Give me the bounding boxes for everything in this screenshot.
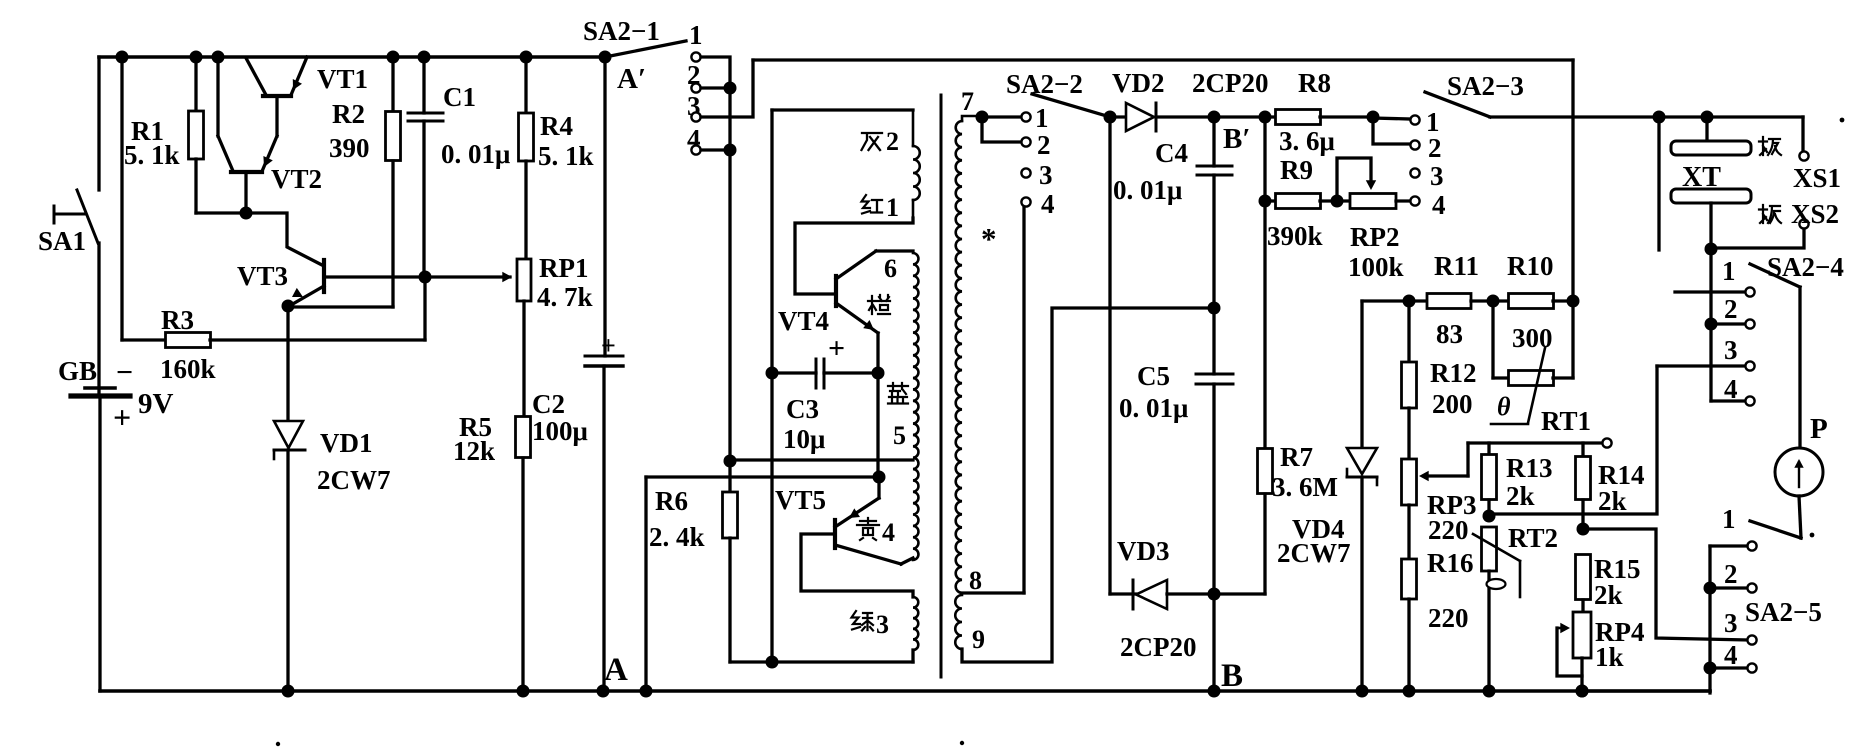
svg-text:R7: R7 bbox=[1280, 442, 1313, 472]
RP4 label bbox=[1595, 617, 1645, 647]
star mark bbox=[981, 221, 997, 256]
SA2-3 pin 2 label bbox=[1428, 133, 1442, 163]
transistor VT5 bbox=[835, 477, 913, 564]
node R10 left bbox=[1487, 295, 1500, 308]
RP3 label bbox=[1427, 490, 1477, 520]
resistor R8 bbox=[1265, 110, 1373, 125]
XS2 label bbox=[1791, 199, 1839, 229]
R15 label bbox=[1594, 554, 1641, 584]
svg-text:C4: C4 bbox=[1155, 138, 1188, 168]
R3 value 160k bbox=[160, 354, 216, 384]
svg-text:C3: C3 bbox=[786, 394, 819, 424]
wire SA2-1 contact1 to common bbox=[701, 57, 730, 88]
R16 value 220 bbox=[1428, 603, 1469, 633]
switch SA2-3 contact 3 bbox=[1410, 168, 1419, 177]
label tap 8 bbox=[969, 566, 982, 595]
RP2 value 100k bbox=[1348, 252, 1404, 282]
svg-text:4: 4 bbox=[1724, 640, 1738, 670]
node B-prime bbox=[1208, 111, 1221, 124]
svg-text:VD2: VD2 bbox=[1112, 68, 1165, 98]
wire SA2-2 contact4 to tap8 bbox=[962, 207, 1024, 593]
wire top rail bbox=[99, 55, 605, 59]
svg-text:200: 200 bbox=[1432, 389, 1473, 419]
wire R2 bottom to VT3 emitter bbox=[288, 305, 393, 308]
svg-text:2: 2 bbox=[886, 127, 899, 156]
C4 value 0.01u bbox=[1113, 175, 1182, 205]
SA2-2 pin 2 label bbox=[1037, 130, 1051, 160]
VD3 type 2CP20 bbox=[1120, 632, 1197, 662]
SA2-1 pin 1 label bbox=[689, 20, 703, 50]
SA2-4 pin 2 label bbox=[1724, 294, 1738, 324]
thermistor RT2 bbox=[1473, 527, 1520, 691]
wire RT1 test row bbox=[1468, 441, 1602, 444]
label cheng orange bbox=[868, 295, 890, 314]
resistor R11 bbox=[1427, 294, 1509, 309]
resistor R12 bbox=[1402, 301, 1417, 459]
R3 label bbox=[161, 305, 194, 335]
node SA2-5 row2 bbox=[1704, 582, 1717, 595]
svg-text:1: 1 bbox=[1035, 103, 1049, 133]
svg-text:7: 7 bbox=[961, 87, 974, 116]
node SA2-1 common to tap5 bbox=[724, 455, 914, 468]
RP1 label bbox=[539, 253, 589, 283]
P label bbox=[1810, 413, 1828, 445]
svg-text:+: + bbox=[601, 331, 616, 360]
svg-text:−: − bbox=[116, 356, 133, 389]
wire B-plus top line bbox=[753, 58, 1573, 61]
svg-text:3: 3 bbox=[1039, 160, 1053, 190]
VD3 label bbox=[1117, 536, 1170, 566]
switch SA2-3 contact 2 bbox=[1410, 140, 1419, 149]
scan speck 2 bbox=[960, 741, 964, 745]
B-prime label bbox=[1223, 123, 1251, 155]
R14 value 2k bbox=[1598, 486, 1627, 516]
C2 value 100u bbox=[532, 416, 588, 446]
svg-text:3: 3 bbox=[876, 610, 889, 639]
transformer primary winding green section bbox=[913, 597, 918, 650]
SA2-2 label bbox=[1006, 69, 1083, 99]
node R14 bottom bbox=[1577, 523, 1590, 536]
wire R8 to SA2-3 contact1 bbox=[1373, 118, 1410, 119]
svg-text:1: 1 bbox=[886, 193, 899, 222]
SA2-3 pin 4 label bbox=[1432, 190, 1446, 220]
VD2 type 2CP20 bbox=[1192, 68, 1269, 98]
node XT top junction bbox=[1701, 111, 1714, 124]
label tap 9 bbox=[972, 625, 985, 654]
switch SA2-5 blade bbox=[1750, 521, 1801, 538]
SA2-5 pin 2 label bbox=[1724, 559, 1738, 589]
wire SA2-5 contact1 bbox=[1710, 544, 1747, 547]
svg-text:R3: R3 bbox=[161, 305, 194, 335]
svg-text:1: 1 bbox=[1722, 256, 1736, 286]
VT5 label bbox=[775, 485, 826, 515]
VT1 label bbox=[317, 64, 368, 94]
svg-text:5. 1k: 5. 1k bbox=[124, 140, 180, 170]
switch SA2-5 contact 3 bbox=[1747, 635, 1756, 644]
svg-text:R9: R9 bbox=[1280, 155, 1313, 185]
node XT bottom junction bbox=[1705, 243, 1718, 256]
wire SA2-2 common vertical bbox=[1108, 117, 1111, 594]
switch SA2-1 blade bbox=[599, 41, 687, 64]
wire left vertical to R3 bbox=[120, 57, 123, 340]
SA2-1 contact 2 bbox=[691, 83, 700, 92]
RT1 label bbox=[1541, 406, 1591, 436]
node R8 left bbox=[1259, 111, 1272, 124]
svg-text:1: 1 bbox=[689, 20, 703, 50]
wire secondary to SA2-2 contact2 bbox=[982, 117, 1021, 142]
VD1 label bbox=[320, 428, 373, 458]
node R13 bottom bbox=[1483, 510, 1496, 523]
resistor R13 bbox=[1482, 443, 1497, 516]
svg-text:B′: B′ bbox=[1223, 123, 1251, 155]
svg-text:R13: R13 bbox=[1506, 453, 1553, 483]
svg-text:3: 3 bbox=[1724, 335, 1738, 365]
R10 label bbox=[1507, 251, 1554, 281]
svg-text:2: 2 bbox=[1037, 130, 1051, 160]
svg-text:XS1: XS1 bbox=[1793, 163, 1841, 193]
R5 value 12k bbox=[453, 436, 495, 466]
wire SA2-4 contact4 bbox=[1711, 399, 1744, 402]
transistor VT3 bbox=[248, 213, 324, 305]
switch SA2-5 contact 2 bbox=[1747, 583, 1756, 592]
node R9 left bbox=[1259, 195, 1272, 208]
svg-text:100k: 100k bbox=[1348, 252, 1404, 282]
R6 label bbox=[655, 486, 688, 516]
node B label bbox=[1221, 658, 1243, 694]
node nine-wire junction bbox=[1208, 302, 1221, 315]
svg-text:300: 300 bbox=[1512, 323, 1553, 353]
wire meter to SA2-5 blade bbox=[1799, 496, 1801, 538]
switch SA2-4 contact 2 bbox=[1745, 319, 1754, 328]
R8 label bbox=[1298, 68, 1331, 98]
RT1 terminal circle bbox=[1602, 438, 1611, 447]
SA2-1 label bbox=[583, 16, 660, 46]
R1 value 5.1k bbox=[124, 140, 180, 170]
svg-text:C5: C5 bbox=[1137, 361, 1170, 391]
switch SA2-2 blade bbox=[1032, 94, 1117, 124]
VT2 label bbox=[271, 164, 322, 194]
zener diode VD1 bbox=[274, 306, 305, 691]
wire SA2-5 contact2 bbox=[1710, 586, 1747, 589]
VD4 type 2CW7 bbox=[1277, 538, 1351, 568]
svg-text:0. 01μ: 0. 01μ bbox=[1119, 393, 1188, 423]
transistor VT4 bbox=[836, 251, 878, 333]
R13 label bbox=[1506, 453, 1553, 483]
svg-text:A′: A′ bbox=[617, 63, 646, 95]
R7 value 3.6M bbox=[1272, 472, 1338, 502]
RP1 value 4.7k bbox=[537, 282, 593, 312]
svg-text:220: 220 bbox=[1428, 603, 1469, 633]
wire B-prime to R8 node bbox=[1214, 115, 1265, 118]
resistor R10 bbox=[1509, 294, 1574, 309]
SA2-1 contact 4 bbox=[691, 145, 700, 154]
svg-text:1k: 1k bbox=[1595, 642, 1624, 672]
svg-text:R4: R4 bbox=[540, 111, 573, 141]
wire A-prime vertical upper bbox=[603, 57, 606, 356]
svg-text:160k: 160k bbox=[160, 354, 216, 384]
svg-text:390: 390 bbox=[329, 133, 370, 163]
SA2-1 contact 1 bbox=[691, 52, 700, 61]
resistor R6 bbox=[723, 461, 738, 662]
svg-text:3. 6M: 3. 6M bbox=[1272, 472, 1338, 502]
svg-text:2CW7: 2CW7 bbox=[317, 465, 391, 495]
RP2 label bbox=[1350, 222, 1400, 252]
wire collector row drop to rail bbox=[644, 477, 647, 691]
svg-text:2: 2 bbox=[1724, 559, 1738, 589]
transformer secondary winding upper bbox=[956, 116, 982, 593]
SA2-5 pin 4 label bbox=[1724, 640, 1738, 670]
svg-text:C2: C2 bbox=[532, 389, 565, 419]
svg-text:θ: θ bbox=[1497, 392, 1511, 421]
svg-text:4: 4 bbox=[882, 518, 895, 547]
SA2-2 pin 3 label bbox=[1039, 160, 1053, 190]
capacitor C3 electrolytic bbox=[766, 359, 885, 388]
potentiometer RP3 bbox=[1402, 459, 1417, 559]
svg-text:4. 7k: 4. 7k bbox=[537, 282, 593, 312]
SA2-5 pin 3 label bbox=[1724, 608, 1738, 638]
node R10 right bbox=[1567, 295, 1580, 308]
wire SA2-4 common vertical bbox=[1709, 249, 1712, 401]
svg-text:3: 3 bbox=[1430, 161, 1444, 191]
GB plus label bbox=[113, 399, 131, 435]
scan speck 3 bbox=[1840, 118, 1845, 123]
resistor R14 bbox=[1576, 443, 1591, 529]
node C1 column on collector line bbox=[419, 271, 432, 284]
svg-text:2k: 2k bbox=[1594, 580, 1623, 610]
svg-text:VT4: VT4 bbox=[778, 306, 829, 336]
SA2-5 label bbox=[1745, 597, 1822, 627]
R12 label bbox=[1430, 358, 1477, 388]
svg-text:+: + bbox=[828, 332, 845, 365]
potentiometer RP4 bbox=[1557, 612, 1591, 691]
switch SA2-2 contact 2 bbox=[1021, 137, 1030, 146]
socket XS1 bbox=[1799, 117, 1808, 161]
svg-text:*: * bbox=[981, 221, 997, 256]
wire SA2-3 common line bbox=[1490, 115, 1803, 118]
wire R3 row right bbox=[210, 338, 425, 341]
wire R8 to SA2-3 contact2 bbox=[1373, 117, 1410, 144]
wire oscillator bottom bbox=[730, 656, 913, 669]
wire primary bottom lead bbox=[911, 650, 914, 662]
switch SA2-3 contact 4 bbox=[1410, 196, 1419, 205]
SA2-3 pin 3 label bbox=[1430, 161, 1444, 191]
R15 value 2k bbox=[1594, 580, 1623, 610]
switch SA1 bbox=[54, 57, 99, 392]
svg-text:SA2−3: SA2−3 bbox=[1447, 71, 1524, 101]
svg-text:12k: 12k bbox=[453, 436, 495, 466]
resistor R1 bbox=[189, 57, 204, 213]
switch SA2-4 contact 1 bbox=[1745, 287, 1754, 296]
wire C3 node down to VT5 collector bbox=[876, 373, 879, 477]
RP3 wiper bbox=[1419, 443, 1468, 481]
label lv3 green3 bbox=[852, 610, 890, 639]
R9 label bbox=[1280, 155, 1313, 185]
meter P bbox=[1775, 448, 1823, 496]
battery GB bbox=[71, 388, 130, 691]
diode VD2 bbox=[1110, 103, 1214, 131]
scan speck 1 bbox=[276, 742, 280, 746]
svg-text:1: 1 bbox=[1722, 504, 1736, 534]
wire SA2-4 blade to meter bbox=[1798, 287, 1801, 448]
node R12 top bbox=[1403, 295, 1416, 308]
svg-text:VT1: VT1 bbox=[317, 64, 368, 94]
resistor R2 bbox=[386, 57, 401, 307]
R4 value 5.1k bbox=[538, 141, 594, 171]
wire bottom rail bbox=[100, 689, 1710, 693]
svg-text:2k: 2k bbox=[1506, 481, 1535, 511]
svg-text:4: 4 bbox=[1041, 189, 1055, 219]
switch SA2-4 blade bbox=[1750, 264, 1800, 287]
XT label bbox=[1682, 162, 1721, 193]
wire R13 junction to SA2-4 contact3 bbox=[1489, 366, 1657, 514]
R11 value 83 bbox=[1436, 319, 1463, 349]
transformer primary winding gray section bbox=[913, 110, 920, 220]
svg-text:5. 1k: 5. 1k bbox=[538, 141, 594, 171]
label tap 5 bbox=[893, 421, 906, 450]
wire box left vertical bbox=[770, 110, 773, 662]
wire top line drop bbox=[1571, 60, 1574, 301]
svg-text:XS2: XS2 bbox=[1791, 199, 1839, 229]
R4 label bbox=[540, 111, 573, 141]
svg-text:GB: GB bbox=[58, 356, 97, 386]
electrode plate XT bottom bbox=[1671, 189, 1751, 249]
wire R11 row from VD4 riser bbox=[1362, 299, 1427, 302]
svg-text:6: 6 bbox=[884, 254, 897, 283]
wire SA2-1 contact2 bbox=[701, 82, 737, 95]
wire VT5 collector row bbox=[646, 471, 886, 484]
RT1 value 300 bbox=[1512, 323, 1553, 353]
svg-text:R16: R16 bbox=[1427, 548, 1474, 578]
RP3 value 220 bbox=[1428, 515, 1469, 545]
wire box top to primary bbox=[772, 108, 913, 111]
electrode plate XT top bbox=[1671, 117, 1751, 155]
svg-text:0. 01μ: 0. 01μ bbox=[1113, 175, 1182, 205]
svg-text:3. 6μ: 3. 6μ bbox=[1279, 126, 1335, 156]
svg-text:83: 83 bbox=[1436, 319, 1463, 349]
socket XS2 bbox=[1711, 219, 1809, 248]
R5 label bbox=[459, 412, 492, 442]
C5 value 0.01u bbox=[1119, 393, 1188, 423]
C2 label bbox=[532, 389, 565, 419]
svg-text:R6: R6 bbox=[655, 486, 688, 516]
wire R14 junction to SA2-5 contact3 bbox=[1583, 529, 1747, 640]
SA2-4 label bbox=[1767, 252, 1844, 282]
svg-text:RT2: RT2 bbox=[1508, 523, 1558, 553]
GB value 9V bbox=[138, 388, 174, 420]
transistor VT1 bbox=[246, 57, 307, 169]
svg-text:2: 2 bbox=[1724, 294, 1738, 324]
C3 label bbox=[786, 394, 819, 424]
scan speck 4 bbox=[1810, 533, 1815, 538]
SA2-4 pin 4 label bbox=[1724, 374, 1738, 404]
diode VD3 bbox=[1110, 580, 1265, 609]
wire SA2-4 contact1 stub bbox=[1675, 290, 1744, 293]
svg-text:R2: R2 bbox=[332, 99, 365, 129]
svg-text:4: 4 bbox=[1432, 190, 1446, 220]
label ban plate bbox=[1759, 205, 1781, 223]
svg-text:RP1: RP1 bbox=[539, 253, 589, 283]
R2 value 390 bbox=[329, 133, 370, 163]
svg-text:9V: 9V bbox=[138, 388, 174, 420]
resistor R4 bbox=[519, 57, 534, 260]
wire VT5 base loop bbox=[801, 534, 913, 597]
C3 plus label bbox=[828, 332, 845, 365]
svg-text:VT2: VT2 bbox=[271, 164, 322, 194]
node VT3 emitter bbox=[282, 300, 295, 313]
R12 value 200 bbox=[1432, 389, 1473, 419]
resistor R7 bbox=[1258, 449, 1273, 595]
C5 label bbox=[1137, 361, 1170, 391]
capacitor C5 bbox=[1196, 308, 1233, 594]
svg-text:2CP20: 2CP20 bbox=[1120, 632, 1197, 662]
svg-text:R11: R11 bbox=[1434, 251, 1479, 281]
label lan blue bbox=[888, 383, 908, 404]
bottom rail junction dots bbox=[282, 685, 1589, 698]
SA2-4 pin 3 label bbox=[1724, 335, 1738, 365]
wire VT4 emitter vertical bbox=[876, 333, 879, 373]
svg-text:C1: C1 bbox=[443, 82, 476, 112]
zener diode VD4 bbox=[1347, 301, 1377, 691]
svg-text:+: + bbox=[113, 399, 131, 435]
wire SA2-1 common vertical bbox=[728, 88, 731, 461]
wire SA2-5 contact4 bbox=[1710, 666, 1747, 669]
wire secondary to SA2-2 contact1 bbox=[982, 115, 1021, 118]
svg-text:10μ: 10μ bbox=[783, 424, 825, 454]
RT2 label bbox=[1508, 523, 1558, 553]
node below VT2 bbox=[240, 207, 253, 220]
wire red1 tap bbox=[795, 218, 913, 294]
svg-text:VT5: VT5 bbox=[775, 485, 826, 515]
resistor R5 bbox=[516, 417, 531, 692]
wire VT4 collector to tap6 bbox=[876, 249, 913, 252]
capacitor C1 bbox=[408, 57, 443, 277]
svg-text:5: 5 bbox=[893, 421, 906, 450]
resistor R3 bbox=[166, 333, 211, 348]
wire stub down bbox=[1657, 117, 1660, 250]
svg-text:390k: 390k bbox=[1267, 221, 1323, 251]
switch SA2-4 contact 3 bbox=[1745, 361, 1754, 370]
R9 value 390k bbox=[1267, 221, 1323, 251]
svg-text:VD1: VD1 bbox=[320, 428, 373, 458]
wire B-prime column to rail bbox=[1212, 594, 1215, 691]
svg-text:SA2−2: SA2−2 bbox=[1006, 69, 1083, 99]
svg-text:2CP20: 2CP20 bbox=[1192, 68, 1269, 98]
wire R1 to VT2 node bbox=[196, 211, 248, 214]
SA2-3 label bbox=[1447, 71, 1524, 101]
switch SA2-3 blade bbox=[1425, 92, 1490, 117]
svg-text:9: 9 bbox=[972, 625, 985, 654]
label tap 7 bbox=[961, 87, 974, 116]
SA2-4 pin 1 label bbox=[1722, 256, 1736, 286]
switch SA2-2 contact 1 bbox=[1021, 112, 1030, 121]
switch SA2-3 contact 1 bbox=[1410, 115, 1419, 124]
node SA2-4 row2 bbox=[1705, 318, 1718, 331]
VD2 label bbox=[1112, 68, 1165, 98]
wire R7 column upper bbox=[1263, 117, 1266, 449]
label tap 6 bbox=[884, 254, 897, 283]
svg-text:R8: R8 bbox=[1298, 68, 1331, 98]
wire SA2-4 contact3 bbox=[1657, 364, 1744, 367]
node VD3 row junction bbox=[1208, 588, 1221, 601]
R11 label bbox=[1434, 251, 1479, 281]
wire tap9 to B-prime node bbox=[962, 308, 1212, 662]
C4 label bbox=[1155, 138, 1188, 168]
svg-text:SA1: SA1 bbox=[38, 226, 86, 256]
transformer core bbox=[940, 95, 943, 677]
wire C1 column lower bbox=[423, 277, 426, 340]
svg-text:3: 3 bbox=[1724, 608, 1738, 638]
transformer primary winding orange-blue section bbox=[913, 253, 918, 560]
